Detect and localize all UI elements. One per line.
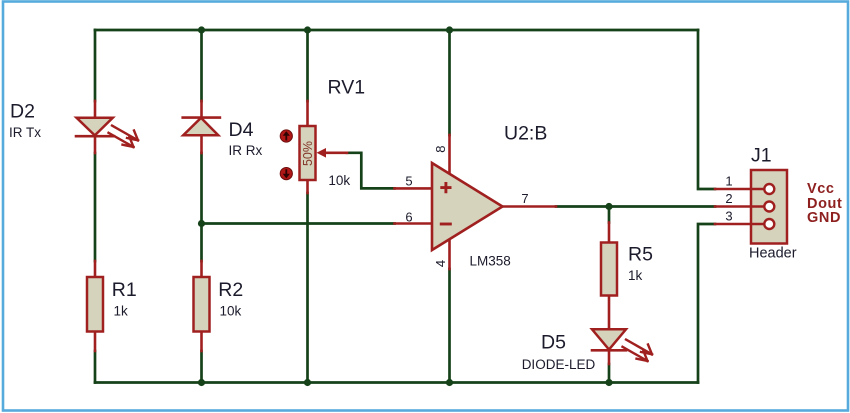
- wire op-amp output to J1 pin 2: [556, 205, 715, 208]
- connector J1 header: [715, 170, 787, 244]
- value LM358: [470, 254, 511, 269]
- pin 2: [725, 191, 732, 206]
- value IR Tx: [9, 125, 41, 140]
- junction top rail / pin 8: [446, 26, 453, 33]
- svg-text:5: 5: [405, 174, 412, 189]
- potentiometer RV1: [280, 101, 347, 193]
- svg-text:10k: 10k: [328, 173, 350, 188]
- wire D2 top: [94, 30, 97, 101]
- wire top rail: [95, 29, 698, 32]
- net label GND: [807, 210, 841, 226]
- wire D5 to bottom rail: [608, 364, 611, 383]
- wire RV1 top: [306, 30, 309, 101]
- diode D4 (IR Rx): [183, 101, 220, 153]
- svg-text:LM358: LM358: [470, 254, 511, 269]
- net label Dout: [807, 196, 842, 212]
- diode D2 (LED IR Tx): [76, 101, 138, 153]
- svg-text:3: 3: [725, 209, 732, 224]
- svg-text:U2:B: U2:B: [504, 123, 547, 145]
- pin 5: [405, 174, 412, 189]
- wire op-amp pin 4 to bottom rail: [448, 269, 451, 383]
- label D5: [541, 332, 566, 354]
- svg-text:1: 1: [725, 174, 732, 189]
- resistor R1: [87, 261, 103, 351]
- label J1: [751, 145, 772, 167]
- wire RV1 wiper to op-amp pin 5: [347, 153, 395, 189]
- svg-text:Header: Header: [749, 246, 797, 262]
- wire R1 to bottom rail: [94, 351, 97, 383]
- value 1k (R5): [628, 268, 643, 283]
- pin 6: [405, 210, 412, 225]
- wire node to op-amp pin 6: [202, 222, 395, 225]
- junction bottom rail / R2: [198, 379, 205, 386]
- value IR Rx: [229, 143, 263, 158]
- svg-text:IR Tx: IR Tx: [9, 125, 41, 140]
- svg-text:4: 4: [433, 260, 448, 267]
- label D2: [10, 101, 35, 123]
- svg-text:2: 2: [725, 191, 732, 206]
- svg-text:R5: R5: [628, 244, 653, 266]
- pin 7: [521, 191, 528, 206]
- svg-text:Vcc: Vcc: [807, 181, 835, 197]
- resistor R5: [601, 223, 617, 330]
- svg-text:DIODE-LED: DIODE-LED: [522, 357, 596, 372]
- svg-text:GND: GND: [807, 210, 841, 226]
- resistor R2: [194, 261, 210, 351]
- value Header: [749, 246, 797, 262]
- svg-text:R1: R1: [112, 279, 137, 301]
- junction output / R5: [605, 203, 612, 210]
- wire top-right drop to J1 pin 1: [698, 30, 715, 189]
- svg-text:D5: D5: [541, 332, 566, 354]
- wire op-amp pin 8 to top rail: [448, 30, 451, 135]
- pin 8: [433, 146, 448, 153]
- svg-text:1k: 1k: [114, 304, 129, 319]
- label R1: [112, 279, 137, 301]
- label R2: [218, 279, 243, 301]
- svg-text:6: 6: [405, 210, 412, 225]
- junction bottom rail / pin 4: [446, 379, 453, 386]
- label RV1: [328, 77, 366, 99]
- junction bottom rail / RV1: [304, 379, 311, 386]
- label D4: [229, 119, 254, 141]
- wire output junction to R5: [608, 207, 611, 223]
- junction bottom rail / D5: [605, 379, 612, 386]
- svg-text:RV1: RV1: [328, 77, 366, 99]
- pin 1: [725, 174, 732, 189]
- svg-text:D2: D2: [10, 101, 35, 123]
- wire D4 top: [200, 30, 203, 101]
- svg-text:8: 8: [433, 146, 448, 153]
- svg-text:7: 7: [521, 191, 528, 206]
- wire bottom rail: [95, 381, 698, 384]
- svg-text:J1: J1: [751, 145, 772, 167]
- pin 3: [725, 209, 732, 224]
- label R5: [628, 244, 653, 266]
- svg-text:1k: 1k: [628, 268, 643, 283]
- wire RV1 bottom to rail: [306, 193, 309, 383]
- wire D4 to R2: [200, 153, 203, 261]
- svg-text:10k: 10k: [220, 304, 242, 319]
- junction D4 / pin 6 node: [198, 220, 205, 227]
- value 10k (R2): [220, 304, 242, 319]
- wire R2 to bottom rail: [200, 351, 203, 383]
- value 10k (RV1): [328, 173, 350, 188]
- wire D2 to R1: [94, 153, 97, 261]
- net label Vcc: [807, 181, 835, 197]
- value 1k (R1): [114, 304, 129, 319]
- value DIODE-LED: [522, 357, 596, 372]
- wire bottom-right rise to J1 pin 3: [698, 224, 715, 383]
- pin 4: [433, 260, 448, 267]
- junction top rail / D4: [198, 26, 205, 33]
- svg-text:D4: D4: [229, 119, 254, 141]
- junction top rail / RV1: [304, 26, 311, 33]
- svg-text:R2: R2: [218, 279, 243, 301]
- diode D5 (LED): [592, 329, 652, 364]
- svg-text:50%: 50%: [301, 141, 315, 166]
- svg-text:IR Rx: IR Rx: [229, 143, 263, 158]
- op-amp U2:B: [395, 135, 557, 269]
- label U2:B: [504, 123, 547, 145]
